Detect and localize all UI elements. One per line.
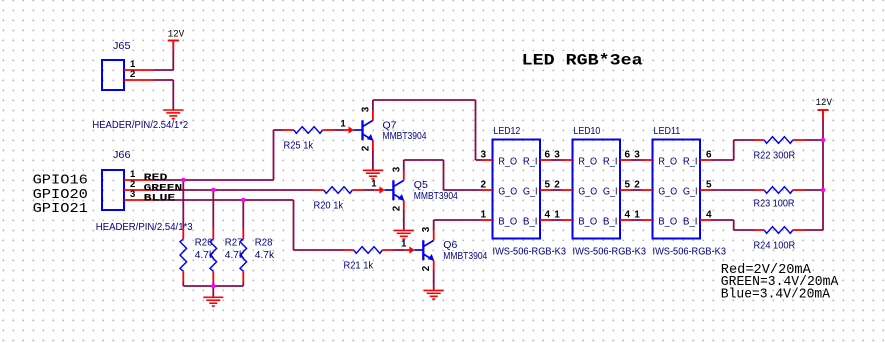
svg-text:1: 1 [340, 118, 346, 129]
svg-text:2: 2 [360, 145, 371, 151]
svg-text:R_I: R_I [523, 156, 538, 167]
svg-text:B_O: B_O [578, 216, 597, 227]
svg-text:MMBT3904: MMBT3904 [414, 191, 458, 202]
svg-text:J66: J66 [113, 150, 131, 161]
svg-text:R24 100R: R24 100R [754, 240, 796, 251]
svg-text:1: 1 [554, 209, 560, 220]
svg-text:12V: 12V [168, 30, 184, 41]
svg-text:R28: R28 [255, 238, 273, 249]
svg-text:2: 2 [421, 265, 432, 271]
svg-text:5: 5 [625, 179, 631, 190]
svg-text:GPIO16: GPIO16 [33, 174, 88, 189]
svg-text:G_I: G_I [683, 186, 698, 197]
svg-text:3: 3 [480, 149, 486, 160]
svg-text:G_O: G_O [578, 186, 597, 197]
svg-text:HEADER/PIN/2.54/1*3: HEADER/PIN/2.54/1*3 [96, 222, 193, 233]
svg-text:B_I: B_I [603, 216, 618, 227]
svg-text:12V: 12V [816, 98, 832, 109]
svg-text:BLUE: BLUE [144, 192, 176, 203]
svg-text:5: 5 [706, 179, 712, 190]
svg-text:4.7k: 4.7k [195, 250, 215, 261]
svg-text:LED RGB*3ea: LED RGB*3ea [522, 52, 643, 70]
svg-text:2: 2 [634, 179, 640, 190]
svg-text:J65: J65 [113, 41, 131, 52]
svg-text:R26: R26 [195, 238, 213, 249]
svg-text:1: 1 [634, 209, 640, 220]
svg-text:R_O: R_O [658, 156, 677, 167]
svg-text:R_I: R_I [683, 156, 698, 167]
svg-text:B_I: B_I [523, 216, 538, 227]
svg-text:MMBT3904: MMBT3904 [443, 251, 487, 262]
svg-text:IWS-506-RGB-K3: IWS-506-RGB-K3 [653, 247, 727, 258]
svg-text:LED11: LED11 [654, 126, 681, 137]
svg-text:R20 1k: R20 1k [314, 201, 344, 212]
svg-text:R21 1k: R21 1k [344, 261, 374, 272]
svg-text:IWS-506-RGB-K3: IWS-506-RGB-K3 [573, 247, 647, 258]
svg-text:G_O: G_O [658, 186, 677, 197]
svg-text:R23 100R: R23 100R [754, 198, 795, 209]
svg-text:4.7k: 4.7k [225, 250, 245, 261]
svg-text:G_I: G_I [523, 186, 538, 197]
svg-text:6: 6 [545, 149, 551, 160]
svg-text:2: 2 [480, 179, 486, 190]
svg-text:G_O: G_O [498, 186, 517, 197]
svg-text:MMBT3904: MMBT3904 [383, 131, 427, 142]
svg-text:Q5: Q5 [414, 180, 428, 191]
svg-text:Blue=3.4V/20mA: Blue=3.4V/20mA [721, 287, 831, 302]
svg-text:4.7k: 4.7k [255, 250, 275, 261]
svg-text:6: 6 [625, 149, 631, 160]
svg-text:1: 1 [401, 238, 407, 249]
svg-text:R27: R27 [225, 238, 243, 249]
svg-text:4: 4 [706, 209, 712, 220]
svg-text:LED12: LED12 [494, 126, 521, 137]
svg-text:IWS-506-RGB-K3: IWS-506-RGB-K3 [493, 247, 567, 258]
svg-text:3: 3 [360, 106, 371, 112]
svg-text:2: 2 [554, 179, 560, 190]
svg-text:GPIO20: GPIO20 [33, 188, 88, 203]
svg-text:HEADER/PIN/2.54/1*2: HEADER/PIN/2.54/1*2 [92, 120, 188, 131]
svg-text:3: 3 [554, 149, 560, 160]
svg-text:4: 4 [545, 209, 551, 220]
svg-text:1: 1 [371, 178, 377, 189]
svg-text:Q7: Q7 [383, 120, 397, 131]
svg-text:4: 4 [625, 209, 631, 220]
svg-text:B_O: B_O [658, 216, 677, 227]
svg-text:2: 2 [391, 205, 402, 211]
svg-text:GPIO21: GPIO21 [33, 202, 88, 217]
svg-text:3: 3 [130, 189, 135, 200]
svg-text:3: 3 [634, 149, 640, 160]
svg-text:R_O: R_O [498, 156, 517, 167]
svg-text:R25 1k: R25 1k [284, 141, 314, 152]
svg-text:G_I: G_I [603, 186, 618, 197]
svg-text:LED10: LED10 [574, 126, 601, 137]
svg-text:R22 300R: R22 300R [754, 151, 796, 162]
svg-text:Q6: Q6 [443, 240, 457, 251]
svg-text:1: 1 [480, 209, 486, 220]
svg-text:2: 2 [130, 69, 135, 80]
svg-text:3: 3 [421, 226, 432, 232]
svg-text:R_O: R_O [578, 156, 597, 167]
svg-text:R_I: R_I [603, 156, 618, 167]
svg-text:B_O: B_O [498, 216, 517, 227]
svg-text:B_I: B_I [683, 216, 698, 227]
svg-text:3: 3 [391, 166, 402, 172]
svg-text:6: 6 [706, 149, 712, 160]
svg-text:5: 5 [545, 179, 551, 190]
